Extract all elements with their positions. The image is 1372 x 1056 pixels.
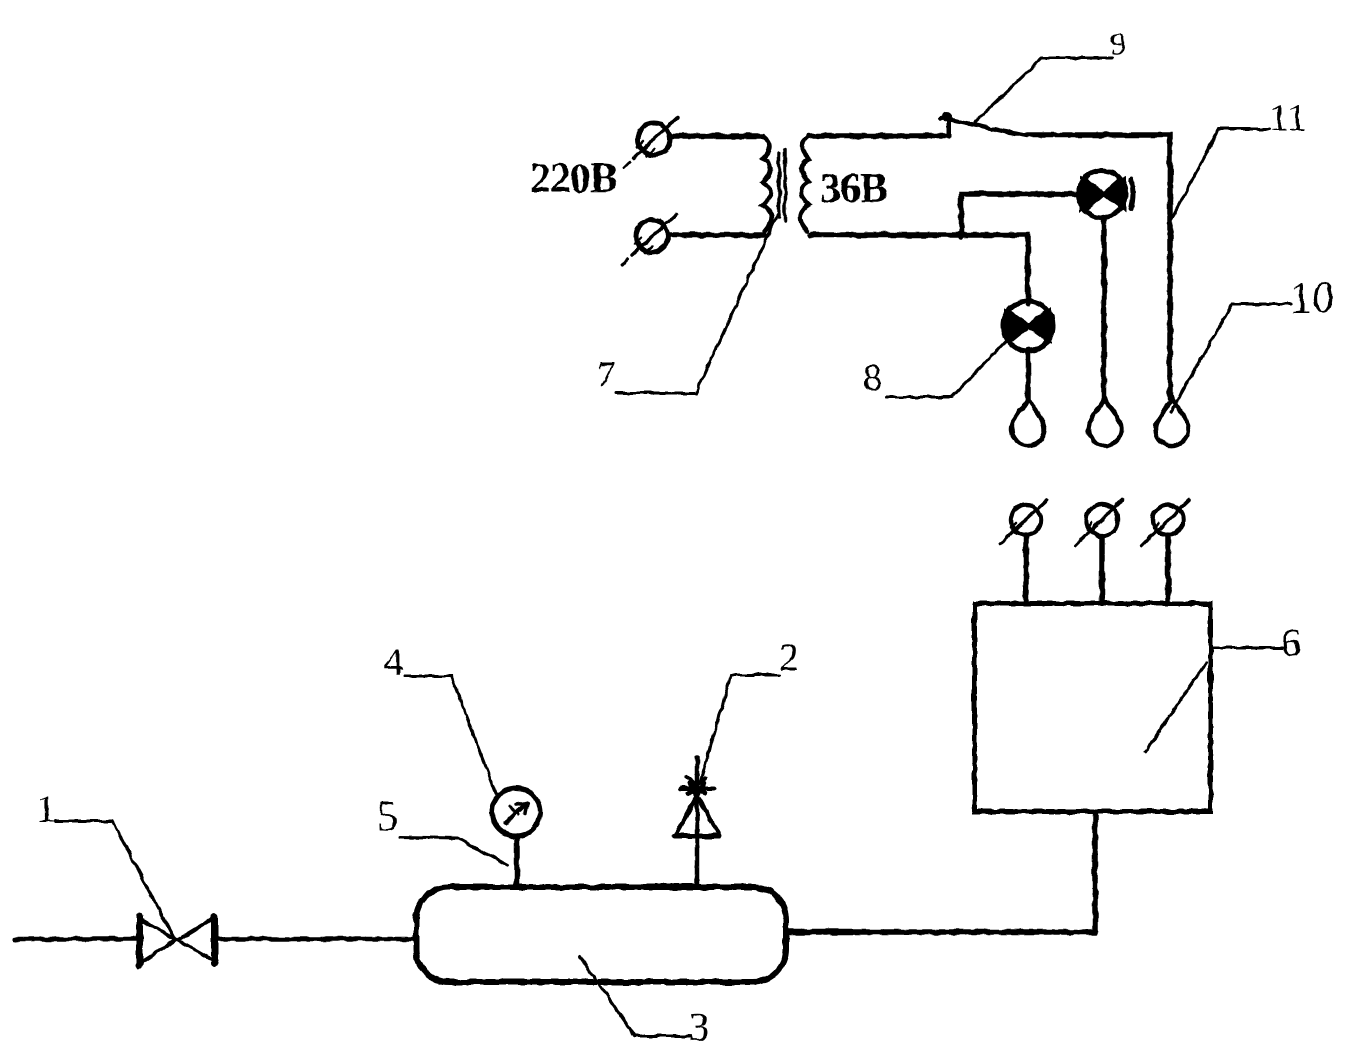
leader label 11	[1172, 129, 1270, 218]
svg-text:4: 4	[384, 640, 404, 683]
wire to lamp HL1	[961, 194, 1081, 237]
tank 3 (receiver)	[416, 887, 786, 982]
wire lamp HL2 down to drop 1	[1025, 350, 1031, 399]
safety valve 2 stem	[695, 757, 700, 887]
box 6 (control unit)	[975, 604, 1211, 812]
gauge 4 (manometer)	[492, 788, 540, 836]
svg-text:7: 7	[597, 355, 616, 396]
leader label 6	[1145, 648, 1282, 752]
terminal X1 (220V top)	[624, 117, 678, 168]
svg-text:1: 1	[36, 786, 56, 831]
transformer T1 core	[779, 149, 785, 221]
svg-text:2: 2	[779, 636, 799, 679]
terminal X2 (220V bottom)	[622, 214, 676, 265]
pipe from tank to box 6	[789, 815, 1095, 932]
drop nozzle 1	[1012, 399, 1045, 446]
svg-text:3: 3	[689, 1004, 709, 1049]
wire primary bottom	[668, 232, 764, 238]
transformer T1 primary coil	[763, 136, 772, 231]
gauge 4 stem	[514, 836, 520, 887]
lamp HL1	[1079, 171, 1134, 218]
leader label 2	[700, 675, 779, 783]
wire lamp HL1 down to drop 2	[1101, 217, 1107, 400]
leader label 10	[1171, 304, 1291, 412]
stem X4	[1099, 536, 1105, 602]
svg-text:8: 8	[863, 357, 882, 399]
svg-text:6: 6	[1281, 620, 1301, 665]
safety valve 2	[674, 777, 719, 836]
leader label 9	[975, 58, 1112, 122]
drop nozzle 3 (10)	[1155, 399, 1188, 446]
wire primary top	[670, 133, 763, 139]
leader label 1	[55, 821, 174, 938]
svg-text:36В: 36В	[820, 166, 887, 212]
terminal X4 on box 6	[1075, 500, 1122, 546]
svg-text:5: 5	[377, 794, 398, 840]
wire vertical to drop 3 (net 11)	[1167, 170, 1173, 399]
stem X5	[1165, 535, 1171, 602]
wire switch to corner	[1025, 135, 1170, 180]
leader label 3	[580, 957, 690, 1036]
stem X3	[1023, 535, 1029, 602]
pipe valve to tank	[218, 937, 414, 942]
wire secondary top	[808, 133, 947, 139]
leader label 7	[616, 215, 777, 393]
leader label 5	[400, 837, 507, 865]
leader label 8	[886, 341, 1006, 397]
pipe inlet left	[14, 937, 137, 942]
svg-text:9: 9	[1110, 25, 1126, 61]
leader label 4	[404, 676, 496, 793]
transformer T1 secondary coil	[800, 136, 809, 231]
valve 1	[140, 917, 215, 966]
drop nozzle 2	[1089, 399, 1122, 446]
wire secondary bottom	[810, 235, 1028, 303]
lamp HL2 (8)	[1003, 301, 1053, 351]
terminal X5 on box 6	[1141, 500, 1189, 546]
switch SA1 (9)	[941, 113, 1027, 137]
svg-text:10: 10	[1290, 273, 1334, 322]
terminal X3 on box 6	[1000, 500, 1047, 544]
svg-text:220В: 220В	[530, 156, 617, 202]
svg-text:11: 11	[1269, 96, 1307, 139]
